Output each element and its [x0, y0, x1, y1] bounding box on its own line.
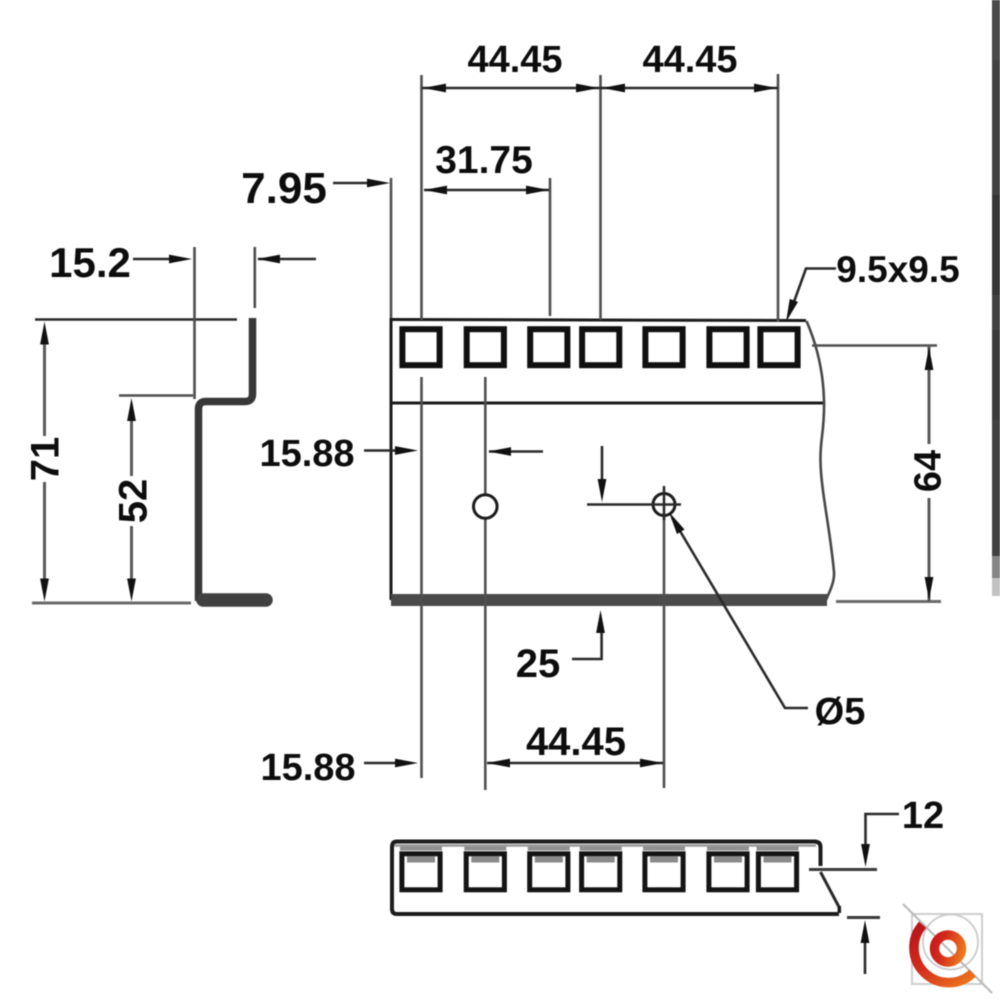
dimension 44.45 bottom line — [487, 762, 663, 765]
front plate left edge — [390, 318, 393, 600]
svg-text:25: 25 — [516, 642, 561, 686]
svg-text:44.45: 44.45 — [467, 39, 562, 81]
dimension 15.2 extension line left — [193, 247, 196, 399]
dimension 52 — [130, 410, 133, 476]
dimension 15.88 top leader — [364, 449, 407, 452]
extension line x=421.5 lower — [420, 377, 423, 778]
side profile bracket — [199, 318, 253, 601]
strip square 2 — [464, 849, 506, 890]
dimension 15.88 top right arrow — [489, 450, 543, 453]
extension line x=664 below crosshair hole — [663, 517, 666, 788]
extension line x=550 — [549, 178, 552, 316]
logo gray circle — [923, 915, 978, 970]
svg-text:15.2: 15.2 — [49, 239, 131, 286]
dimension 25 leader — [572, 632, 602, 659]
profile bottom extension line — [32, 602, 191, 605]
square hole 2 — [467, 329, 504, 365]
leader diameter 5 — [672, 518, 808, 709]
front plate wavy break line — [807, 321, 835, 601]
strip square 7 — [757, 849, 799, 890]
svg-text:44.45: 44.45 — [526, 720, 626, 764]
right edge dark band — [992, 0, 1000, 556]
dimension 64 top extension line — [812, 344, 937, 347]
dimension 64 line — [928, 346, 931, 445]
dimension 31.75 line — [424, 189, 549, 192]
svg-text:7.95: 7.95 — [241, 164, 327, 213]
svg-text:Ø5: Ø5 — [815, 691, 866, 733]
leader 9.5x9.5 — [791, 269, 836, 311]
strip square 3 — [528, 849, 570, 890]
logo gray square — [912, 914, 982, 984]
logo gray diagonal — [903, 904, 992, 993]
extension line x=421.5 upper — [420, 75, 423, 320]
svg-text:9.5x9.5: 9.5x9.5 — [836, 249, 959, 290]
square hole 4 — [582, 329, 619, 365]
extension line x=391 above plate — [390, 178, 393, 318]
profile top extension line — [35, 318, 237, 321]
bottom strip outline — [392, 842, 839, 915]
square hole 5 — [645, 329, 682, 365]
front plate line below squares — [391, 402, 823, 405]
dimension 12 upper extension line — [809, 868, 877, 871]
extension line x=600.5 — [599, 75, 602, 320]
logo outer arc — [914, 925, 973, 983]
square hole 1 — [402, 329, 439, 365]
profile 52 top extension line — [119, 394, 193, 397]
down arrow above hole center line — [601, 446, 604, 481]
svg-text:15.88: 15.88 — [259, 433, 354, 475]
svg-text:64: 64 — [908, 450, 950, 492]
strip square 6 — [707, 849, 749, 890]
dimension 12 leader — [866, 814, 900, 845]
square hole 3 — [530, 329, 567, 365]
dimension 12 lower arrow — [864, 941, 867, 974]
svg-text:44.45: 44.45 — [642, 39, 737, 81]
crosshair hole vertical line — [663, 486, 666, 520]
dimension 15.2 extension line right — [254, 247, 257, 308]
dimension 64 bottom extension line — [836, 600, 941, 603]
front plate bottom thick edge — [391, 594, 827, 606]
svg-text:15.88: 15.88 — [260, 747, 355, 789]
profile bottom foot — [203, 593, 266, 607]
dimension 71 — [43, 333, 46, 436]
extension line x=485.3 through small hole — [484, 377, 487, 790]
dimension 12 lower extension line — [847, 916, 880, 919]
logo inner ring — [935, 935, 962, 962]
square hole 6 — [709, 329, 746, 365]
svg-text:12: 12 — [902, 795, 944, 837]
strip square 4 — [580, 849, 622, 890]
dimension 44.45 top line — [422, 87, 779, 90]
dimension 15.2 leader left — [133, 258, 183, 261]
bottom strip right end vertical — [838, 906, 842, 913]
small hole — [474, 495, 498, 519]
bottom strip top shadow — [394, 844, 816, 847]
crosshair hole — [653, 494, 675, 516]
strip square 1 — [400, 849, 442, 890]
strip square 5 — [643, 849, 685, 890]
bottom strip top right hook — [814, 842, 821, 867]
svg-text:71: 71 — [24, 437, 68, 482]
crosshair hole horizontal line — [587, 503, 681, 506]
dimension 15.2 leader right — [258, 258, 316, 261]
square hole 7 — [760, 329, 797, 365]
front plate top edge — [391, 320, 806, 321]
bottom strip break line — [821, 872, 840, 907]
extension line x=778 — [777, 74, 780, 322]
svg-text:52: 52 — [112, 479, 156, 524]
dimension 15.88 bottom leader — [364, 762, 408, 765]
dimension 7.95 leader — [333, 182, 381, 185]
svg-text:31.75: 31.75 — [435, 139, 533, 182]
